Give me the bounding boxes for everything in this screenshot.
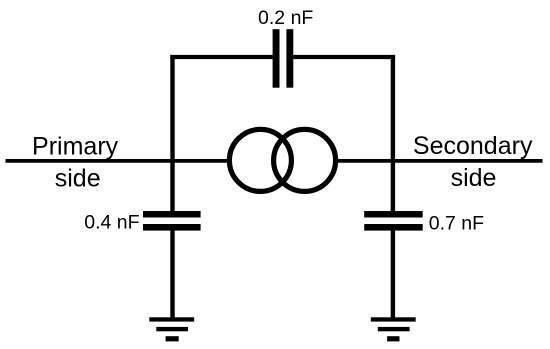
svg-text:side: side <box>451 164 497 192</box>
label 0.4 nF <box>84 212 139 234</box>
node label Primary side <box>32 133 119 193</box>
ground (primary side) <box>149 317 194 341</box>
svg-text:0.4 nF: 0.4 nF <box>84 212 139 234</box>
ground (secondary side) <box>371 317 416 341</box>
transformer T (two overlapping circles) <box>229 129 335 191</box>
wire top rail right segment <box>293 55 395 59</box>
svg-text:0.7 nF: 0.7 nF <box>429 212 484 234</box>
label 0.2 nF <box>258 7 313 29</box>
wire main horizontal line (primary to secondary rail) <box>6 159 543 163</box>
svg-text:side: side <box>55 164 101 192</box>
capacitor 0.7 nF (secondary side) plates <box>364 211 423 231</box>
wire top rail left segment <box>170 55 272 59</box>
wire left riser from top rail down to 0.4 nF capacitor <box>170 55 174 213</box>
wire 0.4 nF capacitor to ground <box>170 228 174 319</box>
wire 0.7 nF capacitor to ground <box>391 228 395 319</box>
wire right riser from top rail down to 0.7 nF capacitor <box>391 55 395 213</box>
node label Secondary side <box>413 132 533 192</box>
svg-text:Primary: Primary <box>32 133 119 161</box>
label 0.7 nF <box>429 212 484 234</box>
svg-text:Secondary: Secondary <box>413 132 533 160</box>
capacitor 0.2 nF (top coupling capacitor) plates <box>273 29 294 87</box>
svg-text:0.2 nF: 0.2 nF <box>258 7 313 29</box>
capacitor 0.4 nF (primary side) plates <box>143 211 201 231</box>
